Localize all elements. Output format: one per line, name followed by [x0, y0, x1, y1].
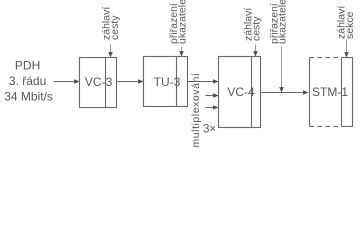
svg-text:PDH: PDH: [15, 58, 40, 72]
block STM-1: [310, 58, 353, 127]
arrow zahlavi cesty into VC-4: [253, 45, 258, 57]
label prirazeni ukazatele (over TU-3): [168, 0, 188, 44]
wire tributary input 3 into VC-4: [206, 105, 219, 110]
arrow prirazeni ukazatele into TU-3: [179, 47, 184, 57]
wire tributary input 2 into VC-4: [206, 93, 219, 98]
node PDH input label: [4, 58, 53, 103]
svg-text:přiřazeníukazatele: přiřazeníukazatele: [168, 0, 188, 44]
svg-text:TU-3: TU-3: [154, 75, 181, 89]
label zahlavi sekce (over STM-1): [336, 6, 356, 39]
arrow zahlavi cesty into VC-3: [108, 45, 113, 58]
svg-text:34 Mbit/s: 34 Mbit/s: [4, 90, 53, 104]
svg-text:záhlavísekce: záhlavísekce: [336, 6, 356, 39]
label 3x multiplier: [203, 124, 216, 136]
label multiplexovani: [190, 73, 202, 148]
block VC-4: [219, 57, 261, 128]
wire VC-3 to TU-3: [117, 79, 144, 84]
block TU-3: [144, 57, 188, 107]
wire TU-3 to VC-4: [188, 79, 219, 84]
block VC-3: [80, 58, 117, 108]
label prirazeni ukazatele (over STM-1 link): [268, 0, 288, 44]
wire VC-4 to STM-1: [261, 90, 309, 95]
svg-text:VC-4: VC-4: [227, 85, 255, 99]
wire PDH to VC-3: [54, 79, 80, 84]
label zahlavi cesty (over VC-3): [101, 7, 121, 40]
svg-text:záhlavícesty: záhlavícesty: [101, 7, 121, 40]
label zahlavi cesty (over VC-4): [242, 8, 262, 41]
svg-text:přiřazeníukazatele: přiřazeníukazatele: [268, 0, 288, 44]
arrow prirazeni ukazatele onto VC-4/STM-1 wire: [279, 47, 284, 93]
svg-text:STM-1: STM-1: [312, 85, 348, 99]
svg-text:3×: 3×: [203, 124, 216, 136]
svg-text:VC-3: VC-3: [85, 75, 113, 89]
arrow zahlavi sekce into STM-1: [344, 40, 349, 58]
svg-text:3. řádu: 3. řádu: [9, 74, 46, 88]
svg-text:záhlavícesty: záhlavícesty: [242, 8, 262, 41]
svg-text:multiplexování: multiplexování: [190, 73, 202, 148]
